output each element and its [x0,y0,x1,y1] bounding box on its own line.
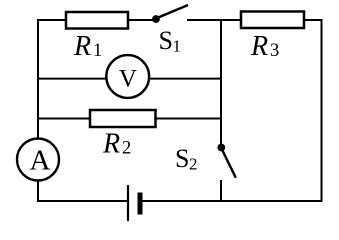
wire: R3 to top-right corner [304,19,322,21]
wire: middle vertical (top wire down to S2) [220,19,222,146]
switch S1 pivot junction [152,15,160,23]
wire: top left segment to R1 [37,19,67,21]
svg-text:1: 1 [173,36,182,55]
resistor R3 [241,12,304,29]
svg-text:2: 2 [189,154,198,173]
svg-text:3: 3 [270,41,279,61]
svg-text:R: R [73,31,91,62]
wire: left vertical (top section, node to ammeter) [37,19,39,139]
wire: S2 lower terminal to bottom wire [220,180,222,202]
wire: R1 to switch S1 [128,19,154,21]
svg-text:S: S [159,26,173,55]
svg-text:1: 1 [93,41,102,61]
wire: bottom left to battery [37,200,127,202]
svg-text:A: A [30,145,51,177]
switch S2 lever (open) [222,150,236,178]
battery long plate (positive) [127,185,129,221]
wire: battery to bottom right [142,200,322,202]
ammeter A [17,139,59,181]
svg-text:V: V [119,66,137,93]
svg-text:R: R [102,128,120,159]
wire: voltmeter row right to middle node [148,78,222,80]
wire: right vertical [321,19,323,202]
wire: left vertical (ammeter to bottom wire) [37,180,39,202]
voltmeter V [106,55,149,98]
wire: R2 row right to middle node [156,118,223,120]
switch S2 pivot junction [217,144,225,152]
wire: S1 to R3 [187,19,242,21]
svg-text:S: S [175,144,189,173]
svg-text:2: 2 [122,138,131,158]
battery short thick plate (negative) [138,193,143,215]
resistor R1 [66,12,128,29]
resistor R2 [90,110,156,127]
wire: R2 row left [37,118,91,120]
switch S1 lever (open) [157,5,188,18]
svg-text:R: R [250,31,268,62]
wire: voltmeter row left [37,78,107,80]
